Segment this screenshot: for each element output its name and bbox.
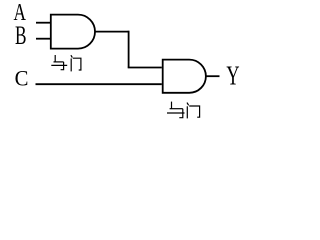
- wire A input: [36, 22, 50, 24]
- label1 men glyph: [71, 55, 81, 71]
- label2 men glyph: [187, 103, 200, 119]
- wire link to U2 top input: [128, 67, 162, 69]
- AND gate U1: [51, 15, 95, 49]
- wire B input: [36, 38, 50, 40]
- svg-text:B: B: [15, 20, 27, 50]
- wire vertical drop: [128, 31, 130, 68]
- label2 yu glyph: [167, 102, 185, 118]
- wire C input: [36, 83, 162, 85]
- label1 yu glyph: [51, 55, 67, 70]
- wire U1 output to corner: [95, 31, 129, 33]
- wire U2 output: [206, 75, 220, 77]
- svg-text:Y: Y: [226, 61, 239, 92]
- AND gate U2: [163, 60, 206, 93]
- svg-text:C: C: [15, 66, 29, 91]
